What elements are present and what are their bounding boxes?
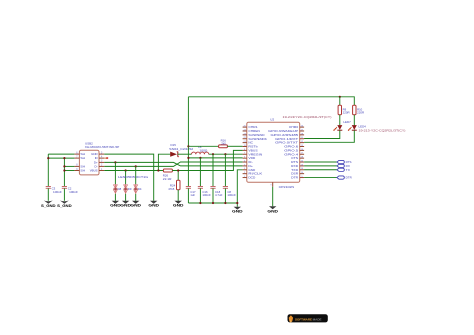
node VDD junction at C17 — [187, 157, 189, 159]
svg-text:VREGIN: VREGIN — [248, 152, 262, 156]
node VBUS junction to D15 — [157, 169, 159, 171]
wire TVS D8 drop — [114, 162, 116, 184]
wire DTR to flag — [304, 177, 337, 179]
ESD diode D9 — [124, 184, 132, 194]
wire C16 to rail — [199, 188, 201, 203]
svg-text:SH: SH — [80, 165, 85, 169]
svg-text:U2: U2 — [270, 118, 274, 122]
resistor R9 220R — [338, 105, 350, 115]
wire VDD vertical trunk — [187, 97, 189, 187]
port flag RX — [337, 164, 350, 168]
port flag RTS — [337, 160, 352, 164]
wire TVS D4 to GND — [135, 194, 137, 201]
wire LED7 to GPIO.1/RXT — [304, 130, 340, 138]
svg-text:100nF: 100nF — [53, 190, 62, 194]
node VBUS junction for TVS D9 — [125, 169, 127, 171]
svg-text:GPIO.5: GPIO.5 — [284, 148, 299, 152]
connector USB2 XH-MICRO-5MT.WK-5P body — [79, 142, 119, 175]
svg-text:CHR0: CHR0 — [289, 125, 299, 129]
resistor R24 47k5 — [168, 180, 180, 191]
svg-text:22.1R: 22.1R — [163, 177, 172, 181]
svg-text:D9: D9 — [128, 187, 132, 191]
svg-text:DTR: DTR — [291, 176, 298, 180]
svg-text:SOFTWARE: SOFTWARE — [295, 318, 312, 322]
svg-text:220R: 220R — [357, 111, 364, 115]
svg-text:LESD5D5.0CT1G: LESD5D5.0CT1G — [118, 175, 148, 179]
svg-text:9: 9 — [270, 184, 271, 186]
wire USB shield pin row 3 — [64, 165, 74, 167]
wire USB VBUS to R26 — [104, 170, 163, 172]
wire USB ID-row shield pin — [48, 157, 74, 159]
svg-text:NC: NC — [248, 141, 253, 145]
svg-text:LED7: LED7 — [343, 120, 351, 124]
wire ferrite to IC VREGIN — [209, 153, 243, 155]
connector USB2 pins and pin numbers — [74, 152, 104, 170]
ground GND under USB GND — [148, 201, 159, 208]
svg-text:MADE: MADE — [313, 318, 322, 322]
connector USB2 inner pin names — [80, 152, 98, 172]
svg-text:GND: GND — [248, 168, 255, 172]
svg-text:RTS: RTS — [291, 160, 298, 164]
svg-text:19-213/Y2C-CQ2R2L/3T(CY): 19-213/Y2C-CQ2R2L/3T(CY) — [283, 115, 332, 119]
svg-text:RI/CLK: RI/CLK — [248, 172, 262, 176]
ground GND under D4 — [130, 201, 141, 208]
ground S_GND left — [41, 201, 56, 208]
capacitor C16 100nF — [198, 187, 211, 198]
node VDD junction at R16 — [187, 145, 189, 147]
svg-text:S_GND: S_GND — [41, 204, 56, 208]
ESD diode D8 — [114, 184, 122, 194]
wire shield vertical second — [63, 158, 65, 186]
svg-text:SH: SH — [80, 169, 85, 173]
wire USB shield pin row 4 — [64, 170, 74, 172]
wire USB GND to ground drop — [104, 154, 153, 201]
svg-text:D+: D+ — [248, 164, 253, 168]
ground GND under D8 — [110, 201, 121, 208]
node junction R9 column — [339, 96, 341, 98]
node shield junction D — [63, 169, 65, 171]
svg-text:LED4: LED4 — [359, 124, 367, 128]
wire ground rail — [188, 202, 237, 204]
svg-text:DTR: DTR — [346, 176, 352, 180]
wire C18 to rail — [212, 188, 214, 203]
wire R9 to LED7 — [339, 115, 341, 126]
wire VDD row to IC — [188, 157, 242, 159]
wire RXD to flag — [304, 165, 337, 167]
svg-text:SS04_C23452: SS04_C23452 — [169, 147, 194, 151]
wire USB D- to IC D- (crossover) — [104, 162, 242, 166]
svg-text:R9: R9 — [343, 107, 347, 111]
svg-text:GND: GND — [130, 204, 141, 208]
node D- junction for TVS D4 — [135, 165, 137, 167]
wire USB D+ to IC D+ (crossover) — [104, 162, 242, 166]
ground GND under D9 — [120, 201, 131, 208]
svg-text:GPIO.6: GPIO.6 — [284, 145, 299, 149]
port flag DTR — [337, 176, 352, 180]
wire LED4 to GPIO.0/TXT — [304, 130, 354, 142]
svg-text:SH: SH — [80, 156, 85, 160]
wire IC GND pin to rail — [237, 170, 242, 203]
node junction R26-R24 — [177, 169, 179, 171]
wire VBUS up to D15 anode — [158, 154, 170, 170]
wire TVS D9 drop — [125, 171, 127, 185]
wire D15 cathode to ferrite — [178, 153, 192, 155]
svg-text:VBUS: VBUS — [90, 169, 98, 173]
svg-text:2k0: 2k0 — [221, 142, 226, 146]
svg-text:RSTb: RSTb — [248, 145, 258, 149]
capacitor C2 100nF — [62, 186, 78, 194]
svg-text:TX: TX — [346, 168, 350, 172]
svg-text:47k5: 47k5 — [168, 187, 175, 191]
svg-text:DCD: DCD — [248, 176, 255, 180]
svg-text:100nF: 100nF — [227, 193, 236, 197]
ground GND under IC EP — [267, 206, 278, 213]
wire rail to GND symbol — [236, 203, 238, 207]
svg-text:GPIO.2/RS485: GPIO.2/RS485 — [271, 133, 299, 137]
svg-text:R10: R10 — [357, 107, 363, 111]
capacitor C18 4.7uF — [210, 187, 222, 198]
wire VDD to LED resistors — [188, 97, 354, 106]
svg-text:SH: SH — [80, 152, 85, 156]
svg-text:100nF: 100nF — [69, 190, 78, 194]
wire R24 to GND — [177, 190, 179, 201]
svg-text:GND: GND — [267, 210, 278, 214]
ground GND under R24 — [173, 201, 184, 208]
wire junction to R24 — [177, 171, 179, 181]
wire C16 column — [199, 158, 201, 187]
svg-text:100Ω: 100Ω — [199, 148, 207, 152]
capacitor C3 100nF — [46, 186, 62, 194]
svg-text:XH-MICRO-5MT.WK-5P: XH-MICRO-5MT.WK-5P — [85, 145, 120, 149]
svg-text:GND: GND — [148, 204, 159, 208]
LED LED7 — [333, 120, 351, 131]
node D+ junction for TVS D8 — [114, 161, 116, 163]
node shield junction B — [63, 157, 65, 159]
svg-text:D8: D8 — [118, 187, 122, 191]
ground S_GND right — [57, 201, 72, 208]
svg-text:GND: GND — [232, 210, 243, 214]
capacitor C8 100nF — [223, 187, 236, 198]
svg-text:S_GND: S_GND — [57, 204, 72, 208]
wire C8 to rail — [224, 188, 226, 203]
svg-text:GPIO.3/WAKEUP: GPIO.3/WAKEUP — [268, 129, 298, 133]
svg-text:SUSPEND: SUSPEND — [248, 133, 264, 137]
svg-text:TXD: TXD — [291, 168, 298, 172]
wire R10 to LED4 — [353, 115, 355, 126]
op-amp U2 CP2102N body — [247, 115, 332, 189]
wire C18 column — [212, 154, 214, 186]
svg-text:1uF: 1uF — [190, 193, 195, 197]
node VDD junction at C16 — [199, 157, 201, 159]
LED LED4 — [348, 124, 406, 132]
ground GND at rail end — [232, 207, 243, 214]
wire R9 drop — [339, 97, 341, 106]
capacitor C17 1uF — [186, 187, 196, 198]
wire shield bus vertical left — [47, 154, 49, 186]
wire USB GND pin to shield bus — [48, 153, 74, 155]
ESD diode D4 — [134, 184, 142, 194]
node rail junction C16 — [199, 202, 201, 204]
svg-text:19-213-Y2C-CQ2R2L/3T(CY): 19-213-Y2C-CQ2R2L/3T(CY) — [359, 128, 406, 132]
node rail junction C18 — [212, 202, 214, 204]
svg-text:4.7uF: 4.7uF — [215, 193, 223, 197]
node rail junction C8 — [224, 202, 226, 204]
svg-text:RXD: RXD — [291, 164, 298, 168]
resistor R10 220R — [353, 105, 365, 115]
svg-text:CHREN: CHREN — [248, 129, 260, 133]
wire TVS D4 drop — [135, 166, 137, 184]
node VREGIN junction at C8 — [224, 153, 226, 155]
wire C3 to S_GND — [47, 188, 49, 200]
ferrite bead L8 100ohm — [192, 145, 209, 154]
svg-text:CP2102N: CP2102N — [279, 185, 295, 189]
node shield junction A — [47, 157, 49, 159]
ESD diode label LESD5D5.0CT1G — [118, 175, 148, 179]
wire C8 column — [224, 154, 226, 186]
svg-text:VBUS: VBUS — [248, 148, 257, 152]
svg-text:DSR: DSR — [291, 172, 298, 176]
svg-text:GPIO.1/RXT: GPIO.1/RXT — [275, 137, 298, 141]
svg-text:GPIO.0/TXT: GPIO.0/TXT — [275, 141, 298, 145]
svg-text:CHR1: CHR1 — [248, 125, 258, 129]
port flag TX — [337, 168, 350, 172]
node shield junction C — [63, 165, 65, 167]
svg-text:GND: GND — [173, 204, 184, 208]
wire C17 to rail — [187, 188, 189, 203]
node rail end junction — [236, 202, 238, 204]
wire TXD to flag — [304, 169, 337, 171]
svg-text:SUSPENDb: SUSPENDb — [248, 137, 267, 141]
svg-text:GPIO.4: GPIO.4 — [284, 152, 299, 156]
wire TVS D8 to GND — [114, 194, 116, 201]
svg-text:100nF: 100nF — [202, 193, 211, 197]
watermark badge — [288, 314, 328, 323]
wire TVS D9 to GND — [125, 194, 127, 201]
wire R26 to VBUS pin riser — [172, 150, 242, 170]
diode D15 SS04_C23452 — [169, 143, 194, 157]
svg-text:D4: D4 — [138, 187, 142, 191]
no-connect on USB2 ID pin — [104, 157, 108, 159]
svg-text:D-: D- — [248, 160, 253, 164]
resistor R26 22.1R — [163, 169, 173, 181]
op-amp U2 pins and names — [243, 125, 305, 187]
node VREGIN junction at C18 — [212, 153, 214, 155]
svg-text:220R: 220R — [343, 111, 350, 115]
svg-text:CTS: CTS — [291, 156, 298, 160]
svg-text:VDD: VDD — [248, 156, 255, 160]
wire C2 to S_GND — [63, 188, 65, 200]
wire RTS to flag — [304, 161, 337, 163]
wire IC EP to GND — [272, 187, 274, 207]
resistor R16 2k0 — [188, 138, 242, 147]
